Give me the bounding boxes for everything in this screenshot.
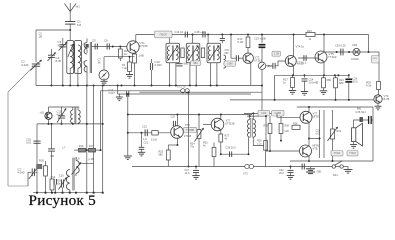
svg-text:R30: R30 (285, 125, 290, 128)
resistor R3 emitter VT1 (135, 52, 137, 54)
battery GB1 (310, 167, 312, 169)
capacitor C27 with ground (195, 166, 197, 168)
IF transformer box L7 L8 (186, 43, 200, 63)
capacitor C5 (94, 44, 96, 50)
wire (169, 63, 171, 86)
wire S3 long (230, 99, 374, 101)
electrolytic C33 (368, 116, 370, 124)
ground R20 (323, 88, 325, 91)
svg-text:ГТ404: ГТ404 (349, 153, 356, 155)
wire osc feed verticals (86, 86, 88, 193)
coil L2 (78, 45, 81, 68)
transistor VT9 (374, 95, 382, 103)
resistor R32 (212, 148, 216, 157)
coil L7 (66, 170, 69, 190)
svg-text:R28: R28 (293, 122, 298, 125)
resistor R16 (79, 148, 86, 152)
ground speaker (353, 142, 355, 145)
wire (169, 38, 171, 44)
variable capacitor C20b (60, 180, 62, 188)
wire (192, 35, 194, 44)
core L3 L4 (89, 42, 91, 73)
coil L3 (84, 43, 87, 55)
svg-text:4-240: 4-240 (21, 63, 29, 67)
svg-text:VT8: VT8 (313, 147, 318, 151)
wire speaker top (354, 120, 368, 128)
svg-text:L3: L3 (82, 42, 86, 46)
node out (308, 138, 310, 140)
coil L10 (217, 46, 219, 60)
coil L7 (188, 46, 190, 60)
coil L9 (208, 46, 210, 60)
svg-text:C6: C6 (104, 39, 108, 43)
wire osc bottom bus (33, 192, 103, 194)
wire base VT5 (298, 57, 318, 59)
svg-text:20.0: 20.0 (279, 172, 284, 175)
coil L1 (70, 45, 73, 68)
svg-text:L7: L7 (63, 146, 66, 150)
IF transformer box L9 L10 (207, 43, 221, 63)
wire (48, 107, 50, 112)
wire collector VT7a (220, 115, 222, 119)
speaker BA1 (352, 128, 356, 142)
svg-text:680: 680 (184, 62, 189, 66)
transistor VT1 (127, 41, 139, 53)
node (207, 34, 209, 36)
svg-text:ВА1: ВА1 (357, 107, 362, 110)
gray label box GT402 (331, 151, 343, 156)
tuning arrow (209, 46, 220, 62)
tuning arrow (168, 46, 179, 62)
svg-text:1М: 1М (39, 35, 42, 38)
potentiometer R1 (103, 57, 105, 70)
wire emitter VT6 (176, 138, 178, 145)
wire (8, 185, 28, 187)
dark block (360, 117, 363, 122)
node antenna junction (69, 29, 71, 31)
svg-text:1.0: 1.0 (143, 138, 147, 141)
capacitor C19b (53, 179, 55, 185)
svg-text:ГТ308В: ГТ308В (186, 130, 194, 132)
svg-text:SA1: SA1 (333, 174, 338, 177)
ground R17 (292, 88, 294, 91)
wire RF to VT1 base (92, 46, 127, 48)
capacitor C6 (106, 44, 108, 50)
gray label box 680 (191, 61, 201, 66)
node (192, 34, 194, 36)
wire (36, 29, 70, 31)
svg-text:R31: R31 (337, 130, 342, 133)
wire (308, 107, 310, 112)
capacitor C15b (235, 55, 237, 61)
wire (372, 107, 374, 161)
wire mid vertical (188, 92, 190, 166)
wire (308, 156, 310, 161)
transistor VT7 (300, 111, 312, 123)
gray label box 0.1M (258, 110, 270, 116)
transistor VT7a (211, 118, 224, 131)
wire (69, 68, 71, 85)
svg-text:МП37: МП37 (313, 115, 320, 119)
svg-text:С25: С25 (171, 116, 176, 119)
svg-text:5.1М: 5.1М (238, 40, 244, 44)
resistor R6 (181, 48, 184, 58)
svg-text:0.033: 0.033 (155, 63, 162, 67)
svg-text:VD3: VD3 (352, 43, 358, 47)
diode VD1 (258, 62, 265, 69)
svg-text:75к: 75к (190, 145, 195, 148)
svg-text:20.0: 20.0 (353, 80, 359, 84)
wire (275, 61, 285, 66)
wire collector VT4 (293, 35, 295, 57)
node (119, 46, 121, 48)
capacitor C32 with ground (290, 166, 292, 168)
svg-text:С23 0.1: С23 0.1 (297, 61, 307, 65)
svg-text:10.0: 10.0 (185, 172, 190, 175)
svg-text:КТ315: КТ315 (184, 135, 192, 138)
resistor R28 (292, 125, 300, 129)
wire emitter VT4 (293, 65, 295, 75)
svg-text:680: 680 (193, 62, 198, 65)
wire base VT7a (203, 124, 211, 126)
dark contact (86, 44, 89, 48)
resistor R29 (269, 116, 271, 124)
ground C24 (304, 89, 306, 92)
piezo filter ZQ1 (155, 31, 173, 38)
capacitor C16a (126, 91, 128, 97)
core (192, 46, 194, 61)
coil L5a (71, 110, 73, 123)
coil L6a (78, 110, 80, 123)
coil L8 (76, 161, 79, 174)
tuning arrow L7 L8 (72, 163, 82, 175)
svg-text:В·7В: В·7В (384, 97, 390, 101)
svg-text:1к: 1к (309, 38, 312, 41)
transistor VT6 (171, 126, 184, 139)
gang link wire (8, 62, 38, 92)
wire (368, 35, 370, 53)
wire emitter node (104, 56, 135, 58)
wire S2 (118, 93, 251, 95)
svg-text:ХТ3: ХТ3 (243, 173, 248, 176)
capacitor C20 (272, 63, 274, 69)
svg-text:W1: W1 (76, 5, 81, 9)
svg-text:R18: R18 (39, 159, 44, 163)
svg-text:8-30: 8-30 (56, 59, 62, 63)
coil L5 (167, 46, 169, 60)
wire (323, 110, 325, 158)
svg-text:АЛ102: АЛ102 (351, 57, 359, 61)
antenna W1 (65, 3, 71, 12)
resistor R27 (220, 130, 222, 134)
wire collector VT5 (323, 35, 325, 53)
svg-text:4к: 4к (203, 144, 206, 147)
wire (77, 68, 79, 85)
ground C21 (141, 149, 143, 152)
capacitor C21 (141, 133, 143, 147)
wire (372, 119, 373, 121)
coil T1 primary (247, 120, 249, 138)
core (212, 46, 214, 61)
svg-text:2.8В: 2.8В (139, 55, 144, 58)
svg-text:Рисунок 5: Рисунок 5 (29, 192, 96, 209)
gray label box VT6 (184, 127, 197, 132)
ground right (343, 166, 348, 168)
wire top rail audio (297, 106, 373, 108)
variable resistor R31 (331, 129, 335, 139)
transistor VT3 (243, 53, 253, 63)
node (335, 99, 337, 101)
wire (319, 110, 321, 158)
svg-text:680: 680 (159, 153, 164, 156)
wire bus end corner (261, 86, 263, 117)
capacitor C17 (48, 148, 55, 150)
resistor R26b (264, 141, 268, 151)
resistor R30 (280, 116, 282, 124)
gray label box 1.1M (272, 51, 281, 56)
resistor R13 on line (306, 32, 315, 36)
osc transformer core (74, 108, 76, 124)
ground R4 (129, 72, 131, 75)
svg-text:4-240: 4-240 (18, 171, 25, 175)
wire bottom rail audio (290, 160, 373, 162)
gray label box 0.25M (272, 110, 285, 116)
svg-text:680: 680 (225, 52, 230, 55)
resistor R18 (45, 161, 47, 166)
wire AF input vertical (127, 94, 129, 153)
resistor R8 (201, 48, 204, 58)
coil L2 box (75, 41, 82, 74)
svg-text:L4: L4 (82, 60, 86, 64)
resistor R21 (335, 75, 337, 78)
transistor VT8 (300, 145, 312, 157)
switch SA1 (332, 165, 335, 168)
svg-text:1.1к: 1.1к (257, 142, 262, 145)
svg-text:С30 0.25: С30 0.25 (335, 44, 346, 48)
wire bottom rail (132, 166, 343, 168)
wire (248, 138, 250, 155)
socket XT3 (245, 164, 249, 168)
svg-text:С26: С26 (285, 130, 290, 133)
wire base VT6 (128, 132, 171, 134)
core (73, 44, 75, 70)
wire T1 sec bottom (253, 137, 263, 145)
lamp HL1 (353, 48, 360, 55)
svg-text:ПФ1П: ПФ1П (160, 32, 167, 36)
svg-text:C5: C5 (92, 39, 96, 43)
wire (308, 122, 310, 146)
capacitor C30 (340, 49, 342, 56)
svg-text:VT6: VT6 (185, 123, 190, 127)
capacitor C23 (303, 55, 305, 61)
resistor R2 (119, 47, 121, 50)
wire osc rail (37, 123, 103, 125)
svg-text:ГТ322: ГТ322 (329, 55, 337, 59)
coil L12 (224, 55, 226, 68)
svg-text:10.0×6В: 10.0×6В (309, 81, 319, 85)
wire collector VT6 (176, 115, 178, 127)
svg-text:р-1В: р-1В (89, 158, 95, 161)
ground R1 (103, 78, 105, 81)
svg-text:С14 16: С14 16 (175, 30, 184, 34)
svg-text:КТ315Б: КТ315Б (226, 122, 235, 126)
capacitor C21t (221, 35, 223, 39)
svg-text:ГТ402: ГТ402 (334, 153, 341, 155)
variable capacitor C2b (31, 169, 33, 177)
wire loop lower (139, 91, 262, 93)
svg-text:0.5М: 0.5М (227, 63, 232, 66)
transistor VT5 (315, 51, 327, 63)
svg-text:680: 680 (327, 78, 332, 82)
electrolytic C19 (261, 35, 263, 43)
svg-text:+1В: +1В (40, 112, 45, 115)
svg-text:4к: 4к (225, 137, 228, 140)
osc transformer L7 L8 core (72, 158, 74, 191)
transformer T1 core (250, 118, 252, 138)
svg-text:680: 680 (339, 81, 344, 85)
wire (74, 149, 78, 151)
transistor VT2 (45, 112, 52, 119)
coil L1 box (67, 41, 74, 74)
wire (210, 63, 212, 86)
coil L8 (196, 46, 198, 60)
wire emitter VT3 (250, 63, 252, 86)
gray label box GT404 (347, 151, 358, 156)
resistor R25 (168, 144, 177, 146)
wire (274, 75, 276, 100)
capacitor C15 (177, 63, 183, 65)
wire S1 (101, 90, 181, 92)
svg-text:0.047: 0.047 (109, 92, 116, 95)
svg-text:0.01: 0.01 (26, 141, 32, 145)
svg-text:С18 +10: С18 +10 (195, 30, 206, 34)
wire (35, 30, 37, 62)
wire rail right (275, 74, 349, 76)
svg-text:6.8: 6.8 (77, 23, 81, 27)
resistor R5 (152, 131, 158, 135)
core (171, 46, 173, 61)
capacitor C18 (202, 32, 204, 38)
wire emitter VT5 (323, 62, 325, 76)
svg-text:С28 20.0: С28 20.0 (226, 147, 237, 150)
wire T1 top lines (244, 112, 277, 114)
capacitor C22 (144, 129, 146, 136)
capacitor C13 (149, 63, 151, 70)
wire (36, 124, 38, 193)
coil L4 (84, 61, 87, 73)
svg-text:ХТ2 75: ХТ2 75 (177, 84, 186, 88)
wire (324, 51, 369, 53)
wire (81, 162, 93, 164)
wire AF top (128, 114, 252, 116)
wire (117, 86, 119, 95)
wire (207, 35, 209, 44)
socket XT2 contacts (181, 89, 185, 93)
wire IF line (172, 34, 369, 36)
capacitor C25 (172, 121, 174, 126)
ground VT9 (377, 103, 379, 106)
wire to VT7 base (277, 113, 300, 117)
svg-text:ЧМ: ЧМ (50, 154, 54, 158)
wire diode to VT4 (266, 65, 271, 67)
svg-text:L8: L8 (77, 157, 80, 161)
resistor R17 (292, 75, 294, 77)
wire base VT3 (230, 35, 232, 59)
svg-text:0.05: 0.05 (316, 132, 321, 135)
svg-text:R17: R17 (89, 145, 94, 148)
svg-text:VT4 1к: VT4 1к (296, 45, 305, 49)
svg-text:0.1М: 0.1М (261, 113, 266, 115)
trimmer capacitor C3 (62, 38, 64, 45)
IF transformer box L5 L6 (166, 43, 180, 63)
resistor R17b (89, 148, 96, 152)
capacitor C16 (33, 140, 40, 142)
ground C16a (118, 94, 120, 97)
resistor R19 (50, 179, 54, 190)
capacitor C28 (229, 151, 231, 157)
svg-text:5.1М: 5.1М (151, 139, 157, 142)
capacitor C1 (65, 21, 75, 23)
trimmer capacitor C4 (50, 49, 52, 55)
wire osc top (49, 106, 80, 108)
tuning arrow L1 (68, 44, 73, 57)
variable capacitor C10 (61, 120, 63, 124)
svg-text:4.3к: 4.3к (366, 84, 372, 88)
wire collector VT1 (135, 35, 137, 43)
svg-text:0.25М: 0.25М (275, 113, 281, 115)
capacitor C14 (184, 32, 186, 38)
electrolytic C26 (348, 75, 350, 78)
ground AF input (127, 153, 129, 156)
svg-text:1.1М: 1.1М (274, 54, 279, 56)
resistor R20 (323, 75, 325, 78)
svg-text:С20: С20 (59, 175, 64, 178)
capacitor C24 (304, 75, 306, 77)
resistor R10 (247, 35, 249, 38)
wire (51, 124, 53, 149)
svg-text:С22: С22 (142, 125, 147, 129)
resistor R33 (377, 82, 381, 90)
svg-text:С19: С19 (51, 176, 56, 179)
svg-text:7.4к: 7.4к (122, 66, 128, 70)
svg-text:С21: С21 (144, 142, 149, 145)
gray label box 0.5M (224, 61, 236, 66)
wire emitter row (221, 153, 249, 155)
tuning arrow (188, 46, 199, 62)
dark box (36, 164, 42, 169)
wire (7, 92, 9, 186)
svg-text:0.25·ГД·2: 0.25·ГД·2 (356, 111, 367, 114)
wire main bus (36, 85, 262, 87)
gray label box C31 (372, 56, 380, 64)
coil T1 secondary (253, 120, 255, 138)
coil L6 (176, 46, 178, 60)
svg-text:R13: R13 (307, 30, 312, 33)
transistor VT4 (285, 56, 296, 67)
svg-text:С19 +10В: С19 +10В (254, 37, 266, 41)
svg-text:R16: R16 (79, 145, 84, 148)
wire (189, 63, 191, 86)
svg-text:КТ315: КТ315 (140, 44, 148, 48)
potentiometer R24 (198, 115, 200, 130)
variable capacitor C2 (32, 63, 40, 65)
resistor R4 (129, 57, 131, 62)
svg-text:GB1: GB1 (317, 171, 323, 174)
wire to VT8 base (266, 116, 300, 151)
capacitor C31 in rail (301, 164, 303, 170)
wire (369, 51, 380, 53)
